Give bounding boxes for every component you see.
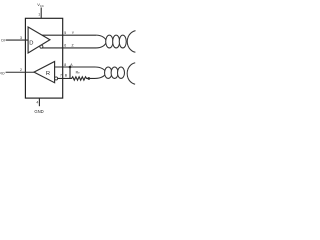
junction dot on A <box>69 66 72 69</box>
wire Z output <box>42 47 96 49</box>
svg-text:1: 1 <box>38 12 40 16</box>
svg-text:RO: RO <box>0 71 5 75</box>
svg-text:5: 5 <box>64 31 66 35</box>
driver U1a triangle <box>28 27 50 53</box>
twisted pair cable bottom: first twist <box>95 67 106 78</box>
wire RT vertical drop from A <box>69 67 71 78</box>
receiver U1b triangle <box>34 62 55 83</box>
svg-text:Z: Z <box>72 44 75 48</box>
junction dot on B <box>88 77 91 80</box>
svg-text:GND: GND <box>34 109 43 114</box>
svg-text:R: R <box>46 71 50 77</box>
wire B to pair <box>89 77 95 79</box>
svg-text:3: 3 <box>20 36 22 40</box>
wire A input <box>55 66 95 68</box>
twisted pair cable top: loops <box>106 35 127 48</box>
svg-text:RT: RT <box>76 70 81 75</box>
wire RO output <box>6 71 34 73</box>
svg-text:8: 8 <box>64 63 66 67</box>
svg-text:VCC: VCC <box>37 2 44 8</box>
svg-text:B: B <box>65 74 68 78</box>
resistor RT zigzag <box>70 77 89 80</box>
IC package box U1 <box>25 18 62 98</box>
svg-text:D: D <box>29 41 33 47</box>
twisted pair cable bottom: loops <box>105 67 125 78</box>
svg-text:7: 7 <box>60 74 62 78</box>
inverter bubble on driver Z output <box>40 45 43 48</box>
wire DI input <box>6 39 29 41</box>
wire B input <box>58 77 70 79</box>
svg-text:Y: Y <box>72 31 75 35</box>
wire bottom pair open end <box>127 63 135 84</box>
svg-text:4: 4 <box>36 100 38 104</box>
wire Vcc to pin 1 <box>40 8 42 19</box>
ground <box>38 98 40 106</box>
inverter bubble on receiver B input <box>55 77 58 80</box>
svg-text:6: 6 <box>64 44 66 48</box>
svg-text:DI: DI <box>1 39 5 43</box>
twisted pair cable top: first twist <box>96 35 106 48</box>
svg-text:2: 2 <box>20 68 22 72</box>
wire Y output <box>42 34 96 36</box>
wire top pair open end <box>127 31 135 53</box>
